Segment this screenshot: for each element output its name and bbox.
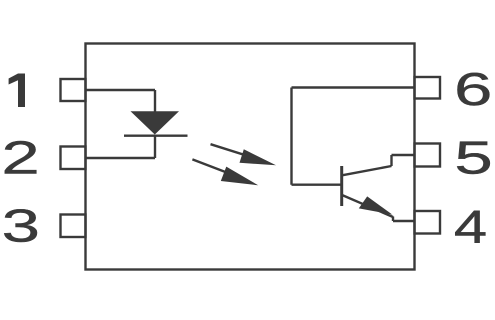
transistor Q1 emitter diagonal bbox=[342, 195, 393, 217]
wire base loop vertical bbox=[290, 88, 292, 185]
wire pin2 to LED cathode bbox=[86, 157, 156, 159]
LED D1 anode triangle bbox=[131, 111, 180, 134]
optocoupler body U1 outline bbox=[86, 44, 415, 270]
wire emitter to pin4 bbox=[393, 220, 415, 222]
svg-text:5: 5 bbox=[454, 133, 492, 184]
emitter step vertical bbox=[392, 217, 394, 222]
collector step vertical bbox=[390, 155, 392, 166]
wire pin6 to transistor base loop bbox=[292, 86, 415, 88]
pin 4 pad bbox=[415, 211, 441, 234]
pin 1 pad bbox=[61, 79, 86, 101]
wire LED cathode vertical bbox=[154, 136, 156, 158]
svg-text:4: 4 bbox=[454, 202, 487, 253]
svg-text:6: 6 bbox=[454, 64, 492, 115]
pin 1 label bbox=[9, 74, 25, 108]
light arrow 2 head bbox=[221, 167, 258, 186]
LED D1 cathode bar bbox=[124, 134, 188, 136]
transistor Q1 collector diagonal bbox=[342, 166, 392, 175]
pin 6 pad bbox=[415, 77, 441, 99]
pin 3 pad bbox=[61, 215, 86, 238]
wire base loop to base bar bbox=[292, 183, 342, 185]
pin 5 pad bbox=[415, 144, 441, 167]
wire pin1 to LED anode bbox=[86, 89, 156, 91]
svg-text:2: 2 bbox=[1, 133, 39, 184]
pin 2 pad bbox=[61, 147, 86, 170]
light arrow 1 shaft bbox=[211, 144, 263, 160]
light arrow 2 shaft bbox=[192, 159, 245, 179]
transistor Q1 base bar bbox=[340, 166, 343, 206]
wire LED anode vertical bbox=[154, 90, 156, 112]
light arrow 1 head bbox=[240, 149, 277, 165]
svg-text:3: 3 bbox=[2, 201, 40, 252]
emitter arrowhead bbox=[359, 196, 393, 214]
wire collector to pin5 bbox=[392, 154, 415, 156]
